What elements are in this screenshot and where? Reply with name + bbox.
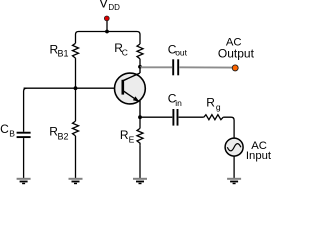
wire top supply rail — [76, 32, 141, 45]
ground RB2 — [69, 179, 83, 184]
resistor RC — [137, 44, 143, 59]
label Cin — [168, 92, 182, 108]
svg-text:E: E — [129, 135, 135, 145]
label VDD — [99, 0, 120, 12]
wire output right (gray) — [179, 66, 233, 68]
resistor Rg — [204, 115, 223, 120]
node emitter junction — [138, 115, 142, 119]
svg-text:C: C — [122, 48, 128, 58]
wire emitter to Cin — [140, 116, 172, 118]
resistor RE — [137, 128, 143, 145]
wire RB2 to ground — [75, 136, 77, 179]
svg-text:Input: Input — [246, 150, 272, 162]
VDD supply symbol — [104, 16, 109, 32]
svg-text:in: in — [175, 98, 182, 108]
svg-text:B: B — [9, 128, 15, 138]
svg-text:V: V — [99, 0, 108, 11]
node collector junction — [138, 65, 142, 69]
wire Rg to source — [223, 117, 234, 138]
transistor Q1 — [114, 67, 145, 117]
capacitor Cin — [173, 109, 177, 126]
wire Cin to Rg — [179, 116, 204, 118]
label Rg — [206, 96, 221, 113]
wire RB1 to base node — [75, 58, 77, 88]
svg-text:DD: DD — [108, 3, 120, 12]
wire CB drop — [24, 88, 27, 132]
capacitor Cout — [173, 59, 178, 75]
label RB2 — [49, 125, 68, 142]
node VDD junction — [105, 30, 109, 34]
label CB — [0, 122, 15, 138]
label RC — [114, 41, 128, 58]
svg-text:g: g — [216, 102, 221, 112]
ground source — [227, 179, 241, 184]
wire output left (gray) — [140, 66, 172, 68]
wire base — [24, 87, 122, 89]
svg-text:R: R — [206, 96, 215, 110]
AC source V1 — [225, 138, 243, 156]
ground CB — [17, 179, 31, 184]
wire source to ground — [233, 156, 235, 179]
svg-text:out: out — [175, 48, 187, 58]
wire RE to ground — [139, 146, 141, 179]
resistor RB2 — [73, 121, 79, 136]
svg-text:Output: Output — [218, 47, 255, 61]
wire RC to collector node — [139, 59, 141, 67]
label AC Input — [246, 140, 272, 162]
svg-text:R: R — [120, 128, 129, 142]
terminal AC output (orange dot) — [232, 65, 238, 71]
label RE — [120, 128, 135, 144]
resistor RB1 — [73, 43, 79, 58]
svg-text:B1: B1 — [58, 48, 69, 58]
label AC Output — [218, 36, 255, 60]
wire CB to ground — [23, 138, 25, 178]
label RB1 — [50, 42, 69, 58]
capacitor CB — [17, 133, 31, 137]
wire base node to RB2 — [75, 88, 77, 121]
ground RE — [133, 179, 147, 184]
svg-text:B2: B2 — [58, 131, 69, 141]
svg-text:C: C — [0, 122, 9, 136]
wire emitter node to RE — [139, 117, 141, 128]
node base junction — [74, 86, 78, 90]
label Cout — [168, 43, 188, 58]
